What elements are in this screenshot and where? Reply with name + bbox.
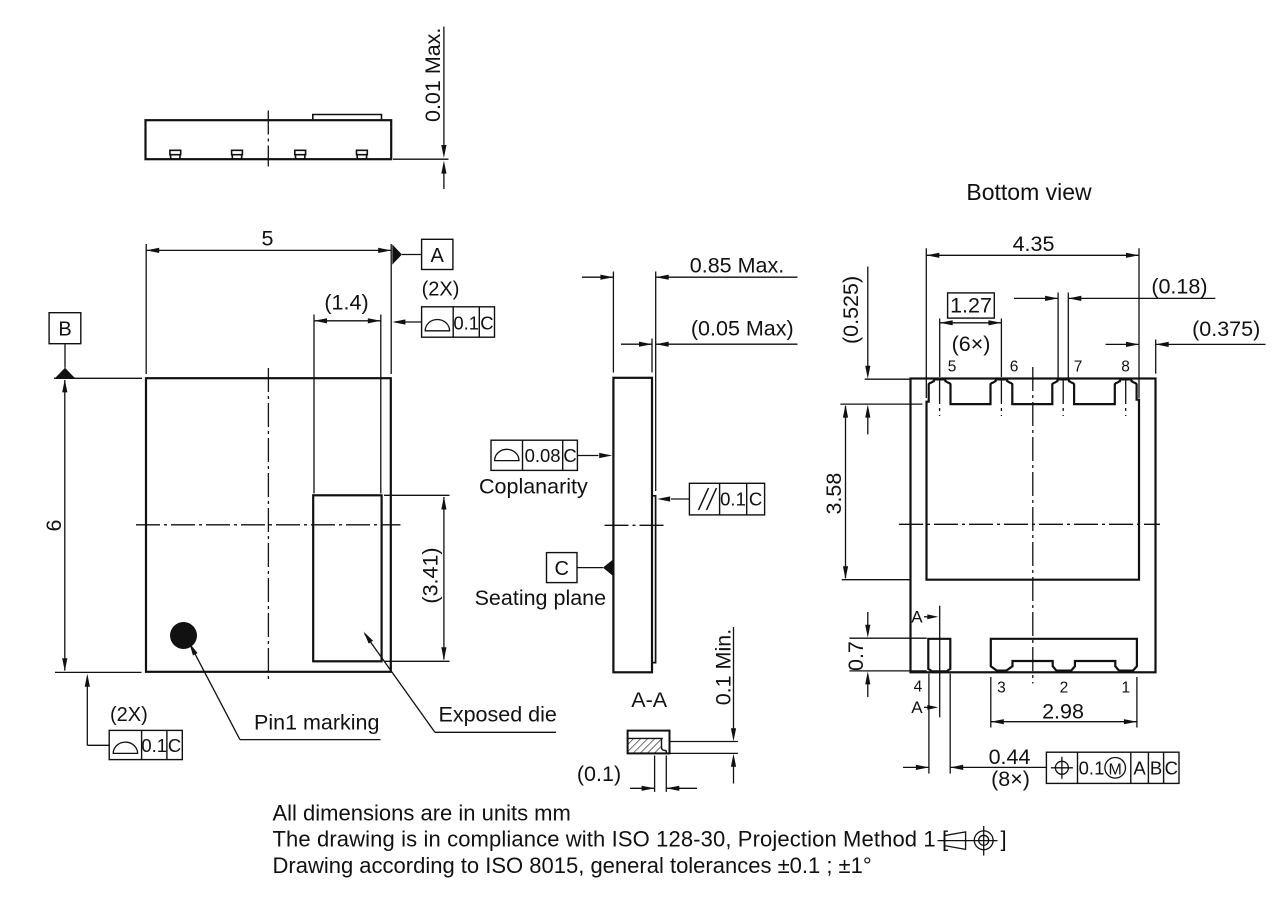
coplanarity frame (0.08 C) bbox=[491, 440, 577, 470]
svg-text:C: C bbox=[749, 489, 762, 510]
svg-text:(1.4): (1.4) bbox=[324, 291, 368, 315]
svg-text:C: C bbox=[1165, 758, 1178, 779]
dimension (3.41) die height bbox=[443, 497, 445, 660]
svg-text:]: ] bbox=[1001, 827, 1007, 852]
center side view centerline bbox=[605, 524, 664, 526]
dimension 3.58 bbox=[842, 579, 910, 581]
bottom view package body bbox=[911, 379, 1156, 673]
pin cap tick marks bbox=[933, 379, 935, 382]
svg-text:0.01 Max.: 0.01 Max. bbox=[421, 28, 445, 122]
datum C symbol bbox=[547, 553, 578, 583]
svg-text:B: B bbox=[58, 319, 71, 341]
exposed die leader bbox=[365, 634, 435, 732]
coplanarity frame lower (0.1 C) bbox=[109, 730, 182, 759]
svg-text:0.08: 0.08 bbox=[525, 445, 561, 466]
svg-text:(0.1): (0.1) bbox=[577, 762, 621, 786]
svg-text:3.58: 3.58 bbox=[822, 473, 846, 515]
svg-text:(2X): (2X) bbox=[110, 704, 148, 726]
svg-text:M: M bbox=[1109, 762, 1122, 779]
projection symbol circles bbox=[974, 831, 993, 850]
svg-text:5: 5 bbox=[948, 359, 957, 376]
svg-text:7: 7 bbox=[1074, 359, 1083, 376]
svg-text:2.98: 2.98 bbox=[1042, 700, 1084, 724]
gate/source pad pins 3-2-1 bbox=[991, 639, 1137, 671]
svg-text:C: C bbox=[554, 558, 568, 580]
top view centerlines bbox=[267, 368, 269, 682]
svg-text:A: A bbox=[911, 608, 923, 627]
svg-text:6: 6 bbox=[42, 519, 66, 531]
svg-text:A-A: A-A bbox=[631, 688, 668, 712]
svg-text:4: 4 bbox=[914, 678, 923, 695]
svg-text:C: C bbox=[168, 735, 181, 756]
dimension 2.98 bbox=[990, 677, 992, 728]
svg-text:4.35: 4.35 bbox=[1013, 232, 1055, 256]
svg-text:A: A bbox=[1133, 758, 1146, 779]
svg-text:Seating plane: Seating plane bbox=[475, 586, 606, 610]
dimension 0.1 Min bbox=[671, 741, 738, 743]
svg-text:3: 3 bbox=[997, 679, 1006, 696]
pin 5-8 centerlines bbox=[939, 380, 941, 416]
svg-text:A: A bbox=[911, 698, 923, 717]
dimension 6 (height) bbox=[54, 377, 142, 379]
svg-text:Exposed die: Exposed die bbox=[439, 703, 557, 727]
position tolerance frame bbox=[1046, 752, 1179, 783]
svg-text:0.7: 0.7 bbox=[844, 641, 868, 671]
dimension 5 (width) bbox=[146, 249, 391, 251]
dimension 0.7 bbox=[849, 637, 926, 639]
svg-text:All dimensions are in units mm: All dimensions are in units mm bbox=[273, 800, 571, 825]
top view package body bbox=[146, 378, 391, 672]
svg-text:(0.525): (0.525) bbox=[839, 276, 863, 344]
section cut line A-A bbox=[939, 606, 941, 718]
svg-text:Pin1 marking: Pin1 marking bbox=[254, 711, 379, 735]
center side view body bbox=[613, 378, 652, 673]
svg-text:A: A bbox=[431, 245, 445, 267]
side view package body bbox=[146, 120, 392, 159]
svg-text:(2X): (2X) bbox=[422, 279, 460, 301]
svg-text:8: 8 bbox=[1121, 359, 1130, 376]
dimension (0.1) bbox=[654, 756, 656, 792]
svg-text:(0.375): (0.375) bbox=[1192, 317, 1260, 341]
svg-text:B: B bbox=[1150, 758, 1162, 779]
svg-text:0.1 Min.: 0.1 Min. bbox=[712, 629, 736, 705]
svg-text:(3.41): (3.41) bbox=[419, 547, 443, 603]
pin1 marking leader bbox=[191, 646, 240, 740]
dimension 0.44 (8x) bbox=[928, 674, 930, 774]
pin1 marking dot bbox=[170, 622, 197, 649]
dimension (0.05 Max) bbox=[651, 339, 653, 373]
dimension 1.27 boxed bbox=[948, 293, 995, 318]
dimension 0.85 Max bbox=[612, 272, 614, 373]
side view leads (4 bumps) bbox=[170, 150, 181, 154]
svg-text:C: C bbox=[563, 445, 576, 466]
center side view lead strip bbox=[652, 496, 656, 663]
dimension 4.35 bbox=[925, 248, 927, 398]
svg-text:0.1: 0.1 bbox=[720, 489, 746, 510]
coplanarity frame upper (0.1 C) bbox=[422, 307, 495, 337]
drain pad with castellated pins 5-8 bbox=[927, 379, 1140, 579]
svg-text:1: 1 bbox=[1121, 679, 1130, 696]
svg-text:Drawing according to ISO 8015,: Drawing according to ISO 8015, general t… bbox=[273, 853, 872, 878]
exposed die pad rectangle bbox=[313, 495, 381, 661]
svg-text:0.1: 0.1 bbox=[453, 313, 479, 334]
svg-text:0.85 Max.: 0.85 Max. bbox=[690, 254, 784, 278]
datum B symbol bbox=[49, 313, 81, 344]
dimension (0.18) bbox=[1057, 293, 1059, 378]
datum A symbol bbox=[392, 244, 402, 264]
parallelism frame (// 0.1 C) bbox=[689, 483, 764, 515]
svg-text:(0.05 Max): (0.05 Max) bbox=[691, 317, 794, 341]
svg-text:0.44: 0.44 bbox=[989, 745, 1031, 769]
svg-text:6: 6 bbox=[1010, 359, 1019, 376]
svg-text:Bottom view: Bottom view bbox=[966, 179, 1092, 205]
0.01 Max dimension bbox=[393, 158, 449, 160]
svg-text:Coplanarity: Coplanarity bbox=[479, 475, 588, 499]
svg-text:2: 2 bbox=[1060, 679, 1069, 696]
dimension (1.4) die width bbox=[314, 320, 381, 322]
source pad pin 4 bbox=[928, 639, 950, 672]
projection symbol cone bbox=[944, 832, 965, 850]
svg-text:C: C bbox=[480, 313, 493, 334]
leader to lower coplanarity frame bbox=[86, 677, 88, 745]
bottom view centerlines bbox=[1032, 367, 1034, 684]
dimension (0.375) bbox=[1155, 340, 1157, 374]
svg-text:(6×): (6×) bbox=[952, 332, 991, 356]
side view exposed-die top strip bbox=[313, 115, 382, 120]
svg-text:0.1: 0.1 bbox=[141, 735, 167, 756]
svg-text:5: 5 bbox=[262, 227, 274, 251]
svg-text:1.27: 1.27 bbox=[950, 294, 992, 318]
svg-text:The drawing is in compliance w: The drawing is in compliance with ISO 12… bbox=[273, 827, 949, 852]
dimension (0.525) bbox=[865, 378, 910, 380]
svg-text:(0.18): (0.18) bbox=[1151, 274, 1207, 298]
side view vertical centerline bbox=[267, 111, 269, 167]
svg-text:(8×): (8×) bbox=[991, 767, 1030, 791]
svg-text:0.1: 0.1 bbox=[1079, 758, 1105, 779]
